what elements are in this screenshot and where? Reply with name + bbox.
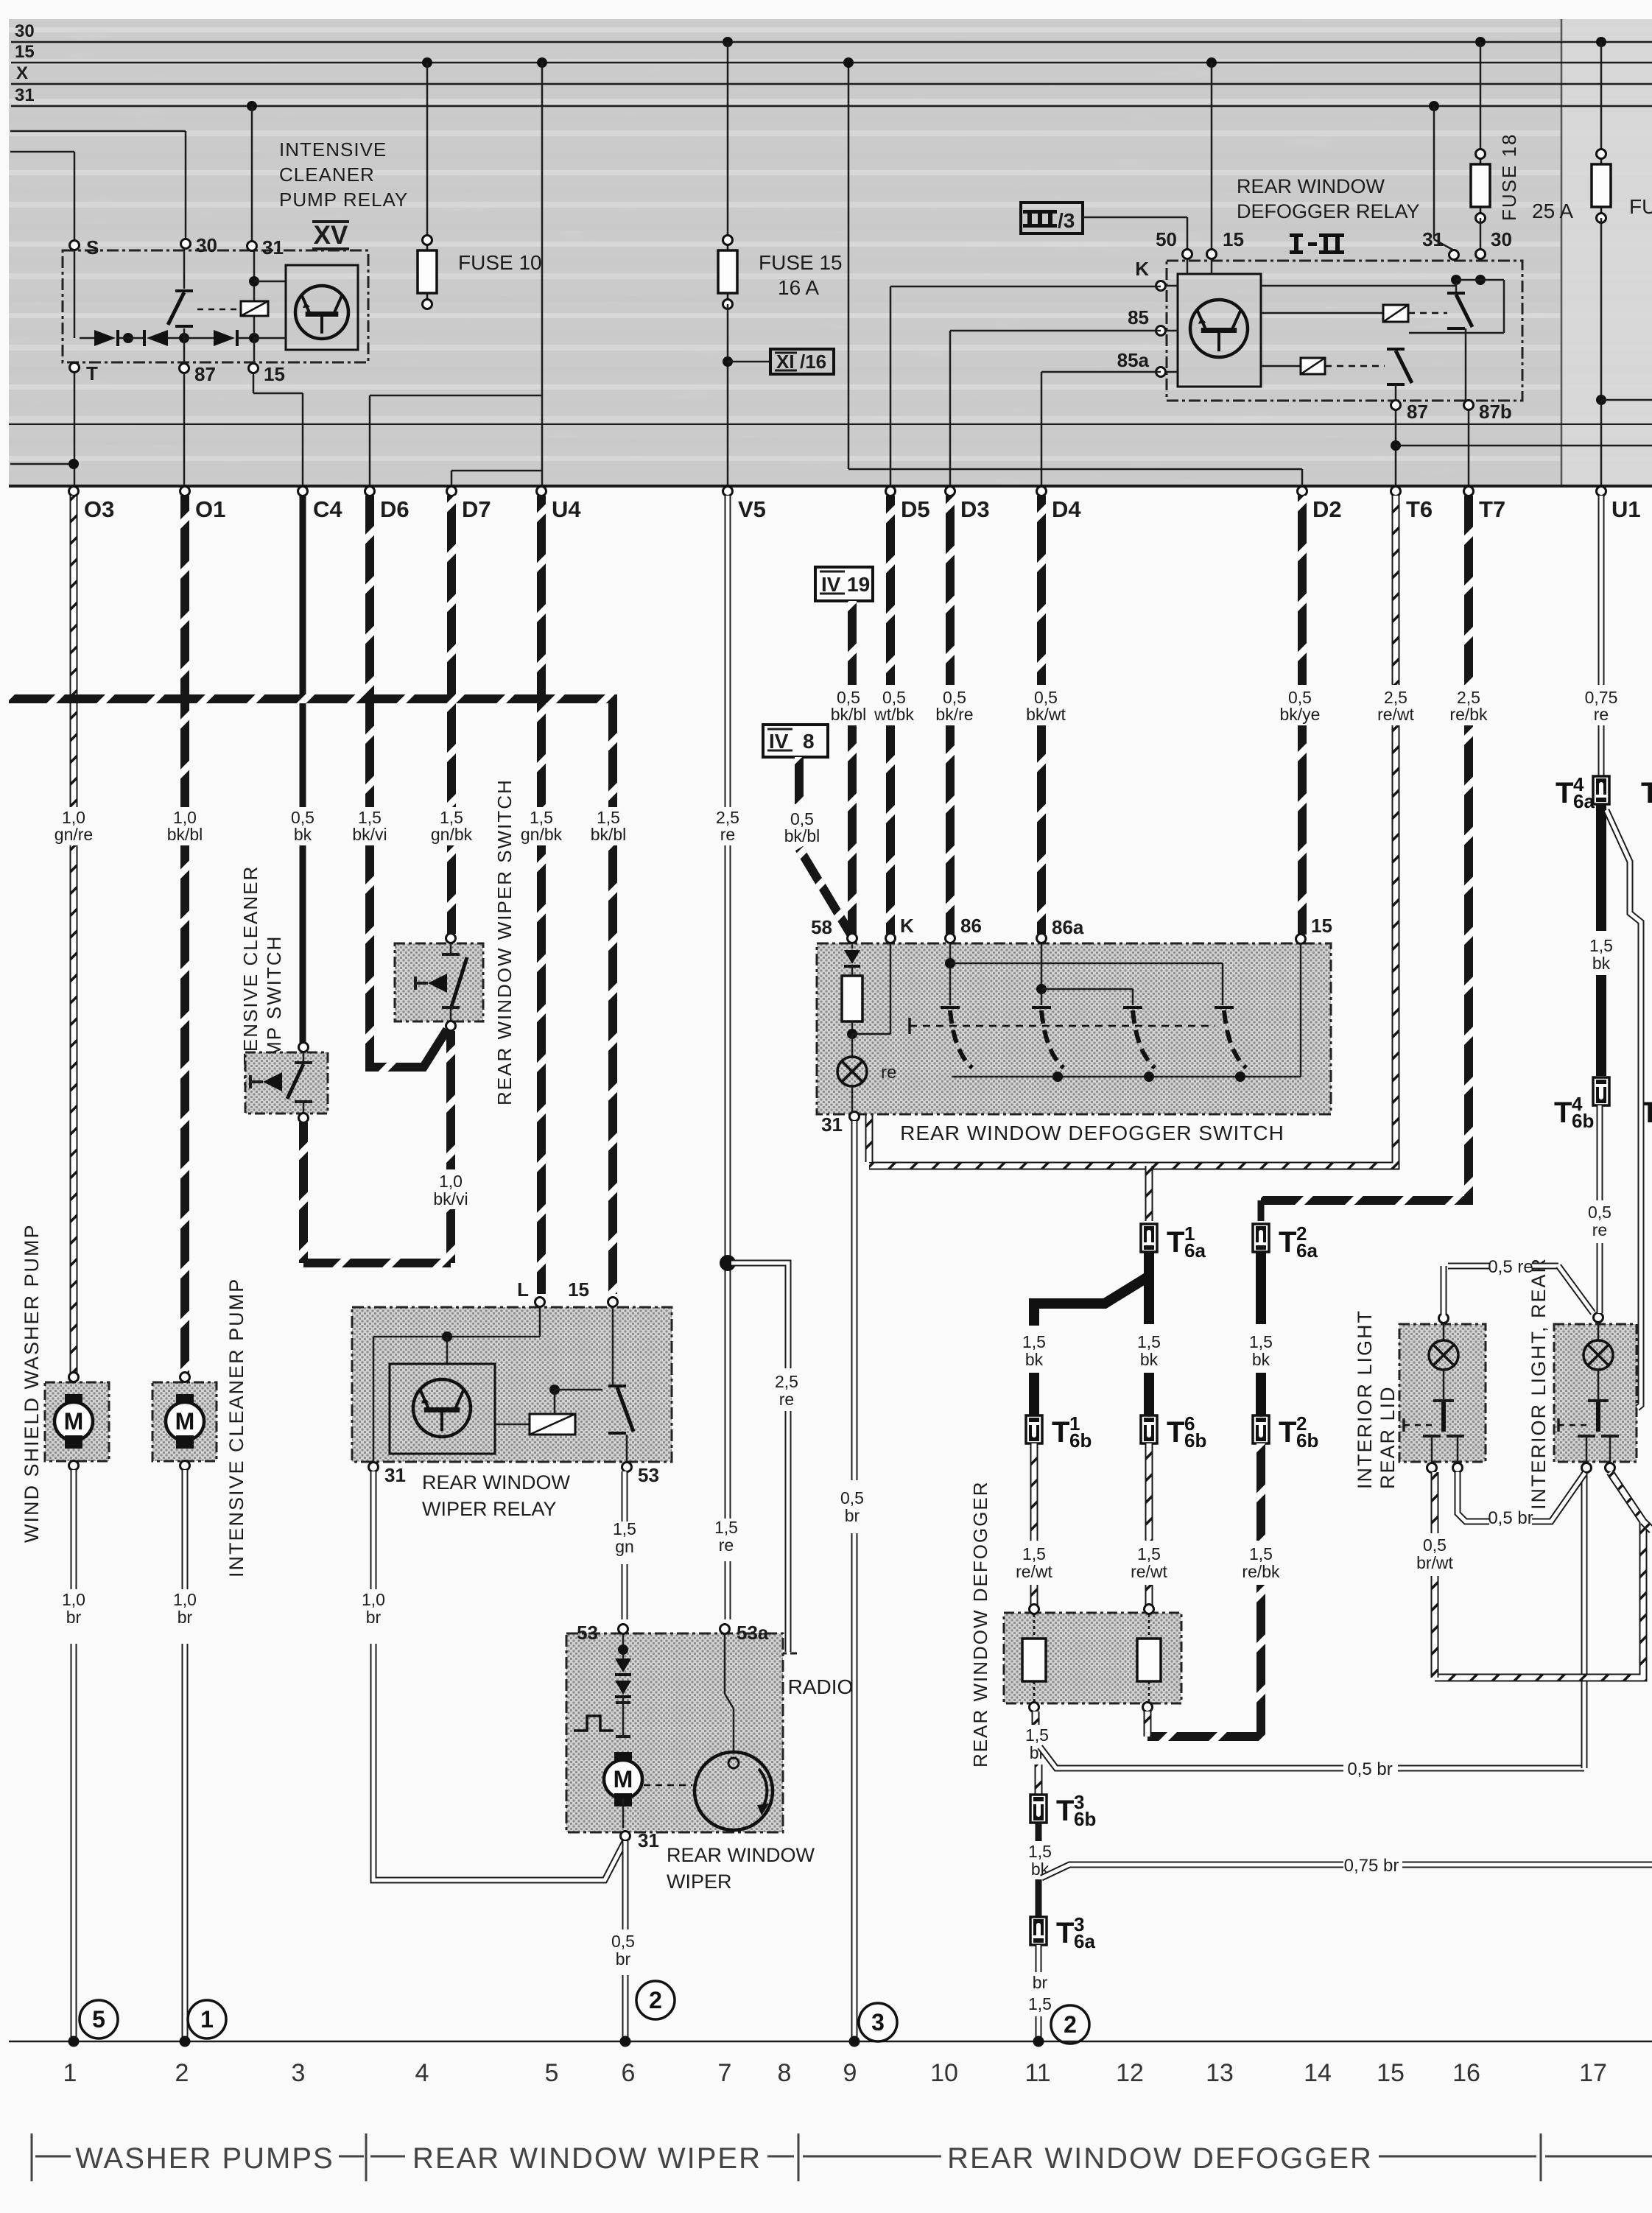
label 1,5 re 53a <box>714 1518 738 1555</box>
interior rear terminal b2 <box>1606 1463 1615 1473</box>
svg-text:11: 11 <box>1024 2059 1050 2087</box>
label 1,0 bk/vi <box>433 1172 468 1208</box>
svg-text:FUSE 10: FUSE 10 <box>458 251 542 274</box>
wire washer ground <box>71 1470 77 2041</box>
label FUSE 19 partial <box>1629 195 1652 218</box>
wire 0,5 br net <box>1458 1472 1585 1521</box>
wire to T6a3 <box>1036 1879 1042 1919</box>
wire label re/wt at 1895 <box>1377 688 1414 724</box>
svg-text:30: 30 <box>1491 228 1512 250</box>
svg-text:1,5: 1,5 <box>1589 936 1613 955</box>
svg-text:6b: 6b <box>1572 1110 1594 1132</box>
terminal 31d <box>1422 228 1458 260</box>
svg-text:0,5: 0,5 <box>1423 1535 1447 1555</box>
thick wire T6a2 <box>1256 1250 1266 1324</box>
svg-text:6: 6 <box>622 2059 636 2087</box>
track number 5 <box>545 2059 559 2087</box>
wire D7 step <box>451 471 542 486</box>
wire T7 re/bk <box>1261 496 1469 1221</box>
separator line <box>9 423 1652 425</box>
node 87 T6 <box>1391 440 1401 451</box>
label 0,5 br switch <box>840 1488 864 1525</box>
label re/wt 1 <box>1016 1544 1052 1581</box>
circled 3 <box>859 2003 897 2041</box>
svg-text:gn/re: gn/re <box>55 825 93 844</box>
indicator lamp <box>837 1034 896 1086</box>
svg-text:15: 15 <box>1377 2059 1405 2087</box>
track number 13 <box>1206 2059 1234 2087</box>
terminal 87 <box>1391 401 1428 423</box>
track number 4 <box>415 2059 429 2087</box>
washer pump box <box>45 1382 109 1461</box>
motor M cleaner <box>166 1394 204 1449</box>
track number 16 <box>1452 2059 1480 2087</box>
svg-text:CLEANER: CLEANER <box>279 163 375 186</box>
terminal 86a <box>1037 916 1084 943</box>
bus line 31 <box>11 85 1652 106</box>
fuse FUSE 15 16A <box>718 236 843 309</box>
svg-text:1,5: 1,5 <box>613 1519 636 1538</box>
wire T6b1 re/wt <box>1030 1443 1038 1606</box>
wire relay87 to O1 <box>183 373 186 486</box>
svg-text:M: M <box>64 1408 84 1435</box>
connector O3 <box>69 487 115 523</box>
coil2-switch dash <box>1408 312 1447 314</box>
label 0,5 re U1 <box>1588 1203 1611 1239</box>
svg-text:REAR WINDOW: REAR WINDOW <box>1237 175 1385 197</box>
plug IV/8 <box>763 725 828 757</box>
svg-text:T: T <box>1279 1416 1296 1449</box>
wire fuse15 to V5 <box>727 304 729 486</box>
fuse 10 lead <box>426 63 429 235</box>
section label REAR WINDOW WIPER <box>412 2142 762 2175</box>
wire III3 to 50 <box>1083 217 1187 250</box>
section tick 2 <box>339 2133 405 2181</box>
terminal 30d <box>1476 228 1512 259</box>
wiper relay transistor box <box>390 1364 495 1454</box>
wire U loop <box>303 1122 451 1263</box>
svg-text:6b: 6b <box>1069 1429 1092 1452</box>
svg-text:1,5: 1,5 <box>714 1518 738 1537</box>
connector T6b1 <box>1026 1412 1092 1452</box>
defogger terminal t2 <box>1145 1605 1154 1614</box>
defogger switch contact 1 <box>941 1007 972 1068</box>
node d2 <box>179 333 214 343</box>
svg-text:3: 3 <box>292 2059 306 2087</box>
svg-text:16 A: 16 A <box>778 276 819 299</box>
diode D58 <box>844 943 860 966</box>
wire T6b2 re/bk <box>1147 1443 1261 1737</box>
svg-text:1: 1 <box>63 2059 77 2087</box>
svg-text:gn: gn <box>615 1537 634 1556</box>
svg-text:9: 9 <box>843 2059 857 2087</box>
svg-text:6b: 6b <box>1296 1429 1318 1452</box>
wire T6a3 br <box>1036 1945 1042 2041</box>
stub wire left <box>10 463 74 465</box>
label 0,5 re inline <box>1488 1257 1533 1277</box>
relay coil K1 <box>241 251 286 363</box>
transistor box Q1 <box>253 265 358 350</box>
heater resistor R1 <box>1022 1614 1046 1703</box>
svg-text:D6: D6 <box>380 496 410 522</box>
track dot at 1160 <box>849 2036 860 2047</box>
node U4 on bus15 <box>537 57 547 68</box>
svg-text:S: S <box>86 236 99 258</box>
plug IV/19 <box>815 567 873 601</box>
terminal 87 <box>180 363 216 385</box>
svg-text:re: re <box>881 1063 896 1083</box>
wire bus31 to relay 31 <box>251 106 253 242</box>
svg-text:1,5: 1,5 <box>1249 1544 1273 1563</box>
terminal 87b <box>1464 401 1512 423</box>
wire label gn/bk at 613 <box>431 808 473 844</box>
connector U4 <box>537 487 582 523</box>
svg-text:re/wt: re/wt <box>1016 1562 1052 1581</box>
node XI16 <box>723 356 733 367</box>
connector T7 <box>1464 487 1506 523</box>
terminal 53w <box>622 1463 659 1487</box>
svg-text:U4: U4 <box>552 496 581 522</box>
label INTERIOR LIGHT <box>1354 1309 1376 1489</box>
wire b1 br <box>1032 1711 1040 1725</box>
svg-text:REAR WINDOW WIPER SWITCH: REAR WINDOW WIPER SWITCH <box>493 778 516 1105</box>
wire relay15 to C4 <box>253 373 303 486</box>
wire V5 re <box>725 496 731 1619</box>
svg-text:19: 19 <box>847 573 870 596</box>
svg-text:RADIO: RADIO <box>788 1675 854 1698</box>
svg-text:K: K <box>900 915 914 937</box>
svg-text:1,5: 1,5 <box>1022 1332 1046 1351</box>
svg-text:16: 16 <box>1452 2059 1480 2087</box>
svg-text:25 A: 25 A <box>1532 200 1573 222</box>
defogger element box <box>1004 1613 1181 1703</box>
wiper cam wire <box>725 1633 734 1753</box>
svg-text:15: 15 <box>15 42 35 62</box>
wire U1 to connector <box>1600 400 1603 486</box>
label 25A <box>1532 200 1573 222</box>
svg-text:0,5 br: 0,5 br <box>1488 1508 1533 1528</box>
cleaner pump terminal top <box>180 1373 190 1382</box>
svg-text:1,0: 1,0 <box>362 1590 385 1609</box>
coil K3 <box>1261 358 1325 374</box>
wiper switch box <box>395 943 483 1021</box>
label FUSE 18 <box>1498 133 1520 222</box>
svg-text:REAR WINDOW DEFOGGER SWITCH: REAR WINDOW DEFOGGER SWITCH <box>900 1122 1284 1144</box>
coil-switch dash <box>197 309 241 311</box>
node V5 radio <box>720 1255 736 1271</box>
wire O1 bk/bl <box>180 496 189 1373</box>
svg-text:re/bk: re/bk <box>1242 1562 1280 1581</box>
wiper switch terminal top <box>446 934 456 943</box>
label radio 2,5 re <box>775 1372 798 1409</box>
svg-text:REAR WINDOW: REAR WINDOW <box>667 1844 815 1866</box>
connector T6b3 <box>1030 1791 1096 1830</box>
connector T6a3 <box>1030 1913 1095 1952</box>
rear lid terminal b1 <box>1427 1463 1437 1473</box>
wiper motor box <box>566 1633 783 1832</box>
node fuse19 on bus30 <box>1596 37 1606 47</box>
wiper relay coil <box>495 1385 602 1435</box>
svg-text:T6: T6 <box>1406 496 1433 522</box>
wire bus 15 striped <box>9 699 613 1294</box>
svg-text:INTERIOR LIGHT: INTERIOR LIGHT <box>1354 1309 1376 1489</box>
svg-text:5: 5 <box>545 2059 559 2087</box>
wire 87b to T7 <box>1468 410 1470 486</box>
svg-text:1,0: 1,0 <box>439 1172 463 1191</box>
section label WASHER PUMPS <box>75 2142 334 2175</box>
svg-text:C4: C4 <box>313 496 342 522</box>
band bottom boundary <box>9 485 1652 488</box>
wire cleaner ground <box>182 1470 189 2041</box>
wire 0,5 re net <box>1444 1266 1593 1315</box>
terminal 15 <box>249 363 285 385</box>
diode D3 <box>214 330 253 346</box>
track number 3 <box>292 2059 306 2087</box>
wire label bk/bl at 1152 <box>831 688 867 724</box>
connector T6b2 <box>1253 1412 1318 1452</box>
bus line 30 <box>11 21 1652 42</box>
svg-text:5: 5 <box>92 2006 105 2033</box>
wire label bk/re at 1296 <box>935 688 973 724</box>
wire U1 edge stub <box>1601 399 1652 401</box>
terminal 53a <box>720 1622 769 1644</box>
wire label re/bk at 1994 <box>1449 688 1488 724</box>
svg-text:bk: bk <box>1140 1350 1159 1369</box>
svg-text:86: 86 <box>960 915 982 937</box>
svg-text:1,5: 1,5 <box>1137 1544 1161 1563</box>
svg-text:30: 30 <box>196 234 217 256</box>
svg-text:/16: /16 <box>800 351 826 373</box>
wire T6 re/wt <box>869 496 1396 1166</box>
track number 17 <box>1579 2059 1607 2087</box>
svg-text:2,5: 2,5 <box>775 1372 798 1391</box>
wiper motor bar <box>616 1735 630 1738</box>
rear lid terminal b2 <box>1453 1463 1463 1473</box>
label REAR WINDOW WIPER RELAY <box>422 1471 571 1520</box>
svg-text:br: br <box>366 1608 382 1627</box>
svg-text:87b: 87b <box>1479 401 1512 423</box>
fuse19 lead <box>1600 42 1603 149</box>
page seam line <box>1561 19 1563 486</box>
track number 2 <box>175 2059 189 2087</box>
svg-text:br: br <box>177 1608 193 1627</box>
label 1,5 gn <box>613 1519 636 1556</box>
fuse FUSE 10 <box>418 236 542 309</box>
wire label re at 2174 <box>1585 688 1618 724</box>
svg-text:D2: D2 <box>1312 496 1342 522</box>
label re/wt 2 <box>1131 1544 1167 1581</box>
svg-text:31: 31 <box>821 1113 843 1136</box>
svg-text:D3: D3 <box>960 496 990 522</box>
connector D4 <box>1037 487 1082 523</box>
svg-text:gn/bk: gn/bk <box>521 825 563 844</box>
wire label bk at 411 <box>291 808 314 844</box>
svg-text:X: X <box>16 63 28 83</box>
wire 85 to D3 <box>950 331 1161 486</box>
node fuse15 on bus30 <box>723 37 733 47</box>
label REAR LID <box>1377 1385 1399 1489</box>
label IV8 0,5 bk/bl <box>784 809 820 845</box>
fuse FUSE 19 <box>1592 149 1611 223</box>
diode D2 <box>144 330 184 346</box>
wiper switch terminal bottom <box>446 1021 456 1031</box>
symbol I-II <box>1290 233 1344 254</box>
track number 15 <box>1377 2059 1405 2087</box>
svg-text:7: 7 <box>718 2059 732 2087</box>
wire motor to 31m <box>622 1798 625 1828</box>
svg-text:0,5 re: 0,5 re <box>1488 1257 1533 1277</box>
svg-text:INTENSIVE: INTENSIVE <box>279 138 387 161</box>
svg-text:O3: O3 <box>84 496 114 522</box>
node d1 <box>118 333 144 343</box>
circled 1 <box>188 2000 226 2038</box>
circled 2 defogger <box>1051 2005 1089 2044</box>
wire 0,75 br link <box>1041 1865 1652 1878</box>
connector D2 <box>1298 487 1342 523</box>
svg-text:br: br <box>66 1608 82 1627</box>
svg-text:6a: 6a <box>1074 1930 1095 1952</box>
svg-text:bk/bl: bk/bl <box>591 825 627 844</box>
label REAR WINDOW DEFOGGER RELAY <box>1237 175 1420 222</box>
wire K to D5 <box>890 286 1161 486</box>
label 0,75 br inline <box>1344 1856 1399 1876</box>
wire 87 to right edge <box>1396 445 1652 447</box>
svg-text:bk: bk <box>1592 954 1611 973</box>
rear lid terminal top <box>1439 1314 1449 1323</box>
svg-text:bk/bl: bk/bl <box>831 705 867 724</box>
defogger switch contact 3 <box>1123 1007 1155 1068</box>
svg-text:50: 50 <box>1156 228 1177 250</box>
label INTENSIVE CLEANER PUMP SWITCH <box>239 865 285 1087</box>
svg-text:bk/wt: bk/wt <box>1026 705 1066 724</box>
label WIND SHIELD WASHER PUMP <box>21 1223 43 1543</box>
wire relayT to O3 <box>74 373 76 486</box>
connector U1 <box>1597 487 1641 523</box>
wire 0,5 br link <box>1040 1747 1584 1768</box>
connector D5 <box>886 487 930 523</box>
svg-text:30: 30 <box>15 21 35 41</box>
svg-text:T: T <box>1554 1097 1572 1129</box>
svg-text:0,5: 0,5 <box>1588 1203 1611 1222</box>
svg-text:6a: 6a <box>1296 1239 1318 1262</box>
washer pump terminal bottom <box>69 1461 79 1471</box>
track number 8 <box>778 2059 792 2087</box>
svg-text:WASHER PUMPS: WASHER PUMPS <box>75 2142 334 2175</box>
connector D3 <box>946 487 990 523</box>
label REAR WINDOW DEFOGGER SWITCH <box>900 1122 1284 1144</box>
defogger switch contact 4 <box>1215 1007 1246 1068</box>
wire O3 gn/re <box>70 496 78 1373</box>
wire 85a to D4 <box>1041 372 1161 486</box>
svg-text:bk: bk <box>1025 1350 1044 1369</box>
svg-text:1,5: 1,5 <box>1249 1332 1273 1351</box>
label 1,0 br w <box>362 1590 385 1627</box>
bus line X <box>11 63 1652 84</box>
terminal Ks <box>886 915 915 943</box>
svg-text:IV: IV <box>769 730 789 753</box>
svg-text:2: 2 <box>175 2059 189 2087</box>
connector D7 <box>447 487 491 523</box>
svg-text:T: T <box>1056 1795 1074 1827</box>
bus line 15 <box>11 42 1652 63</box>
svg-text:br/wt: br/wt <box>1416 1553 1453 1572</box>
washer pump terminal top <box>69 1373 79 1382</box>
plug III/3 <box>1021 203 1083 233</box>
wire to terminal S <box>10 152 74 241</box>
interior rear terminal b1 <box>1582 1463 1592 1473</box>
svg-text:L: L <box>517 1278 529 1301</box>
svg-text:85: 85 <box>1128 306 1149 328</box>
wire K internal <box>852 943 890 1034</box>
node U1 junction <box>1596 395 1606 405</box>
wire U4 vertical <box>541 63 544 486</box>
terminal 85 <box>1128 306 1165 336</box>
svg-text:FUSE 18: FUSE 18 <box>1498 133 1520 222</box>
svg-text:br: br <box>845 1506 860 1525</box>
label INTENSIVE CLEANER PUMP RELAY <box>279 138 408 211</box>
wiper relay switch <box>608 1307 633 1462</box>
svg-text:58: 58 <box>811 916 832 938</box>
svg-text:K: K <box>1135 258 1149 280</box>
wire D7 gn/bk <box>447 496 456 934</box>
connector D6 <box>365 487 410 523</box>
label 1,0 br washer <box>62 1590 85 1627</box>
svg-text:V5: V5 <box>738 496 766 522</box>
diode D1 <box>80 330 118 346</box>
wire label bk/wt at 1420 <box>1026 688 1066 724</box>
terminal L <box>517 1278 544 1307</box>
svg-text:87: 87 <box>194 363 216 385</box>
interior rear light box <box>1554 1324 1637 1462</box>
track dot at 100 <box>68 2036 80 2047</box>
svg-text:re: re <box>719 1535 734 1555</box>
wire radio branch <box>731 1263 788 1652</box>
svg-text:31: 31 <box>1422 228 1444 250</box>
svg-text:PUMP RELAY: PUMP RELAY <box>279 189 408 211</box>
wire T6 branch to T6a1 <box>1145 1166 1153 1221</box>
svg-text:/3: /3 <box>1058 209 1075 232</box>
cleaner pump switch box <box>245 1052 328 1113</box>
terminal 50 <box>1156 228 1192 259</box>
svg-text:bk/bl: bk/bl <box>784 826 820 845</box>
edge label T right upper <box>1641 777 1652 809</box>
svg-text:REAR WINDOW: REAR WINDOW <box>422 1471 571 1493</box>
wire D6 step <box>370 395 542 486</box>
svg-text:0,5: 0,5 <box>611 1932 635 1951</box>
svg-text:D7: D7 <box>462 496 491 522</box>
svg-text:WIPER: WIPER <box>667 1871 732 1893</box>
coil3-switch dash <box>1325 365 1385 367</box>
terminal 31m <box>621 1829 659 1851</box>
wire fuse18 to 30term <box>1480 218 1482 250</box>
svg-text:15: 15 <box>568 1278 589 1301</box>
cleaner switch contact <box>287 1052 312 1113</box>
motor M wiper <box>604 1752 642 1806</box>
svg-text:15: 15 <box>1311 915 1332 937</box>
svg-text:bk/re: bk/re <box>935 705 973 724</box>
connector T6a2 <box>1253 1222 1318 1262</box>
svg-text:re: re <box>1592 1220 1607 1239</box>
wire 31m ground <box>622 1841 629 2041</box>
relay internal S wire <box>74 250 76 338</box>
wire label bk/vi at 502 <box>352 808 387 844</box>
wire hatched U <box>1435 1472 1652 1678</box>
relay rail top <box>1261 275 1504 333</box>
terminal S <box>70 236 99 258</box>
svg-text:re: re <box>720 825 735 844</box>
svg-text:6a: 6a <box>1184 1239 1206 1262</box>
track number 11 <box>1024 2059 1050 2087</box>
